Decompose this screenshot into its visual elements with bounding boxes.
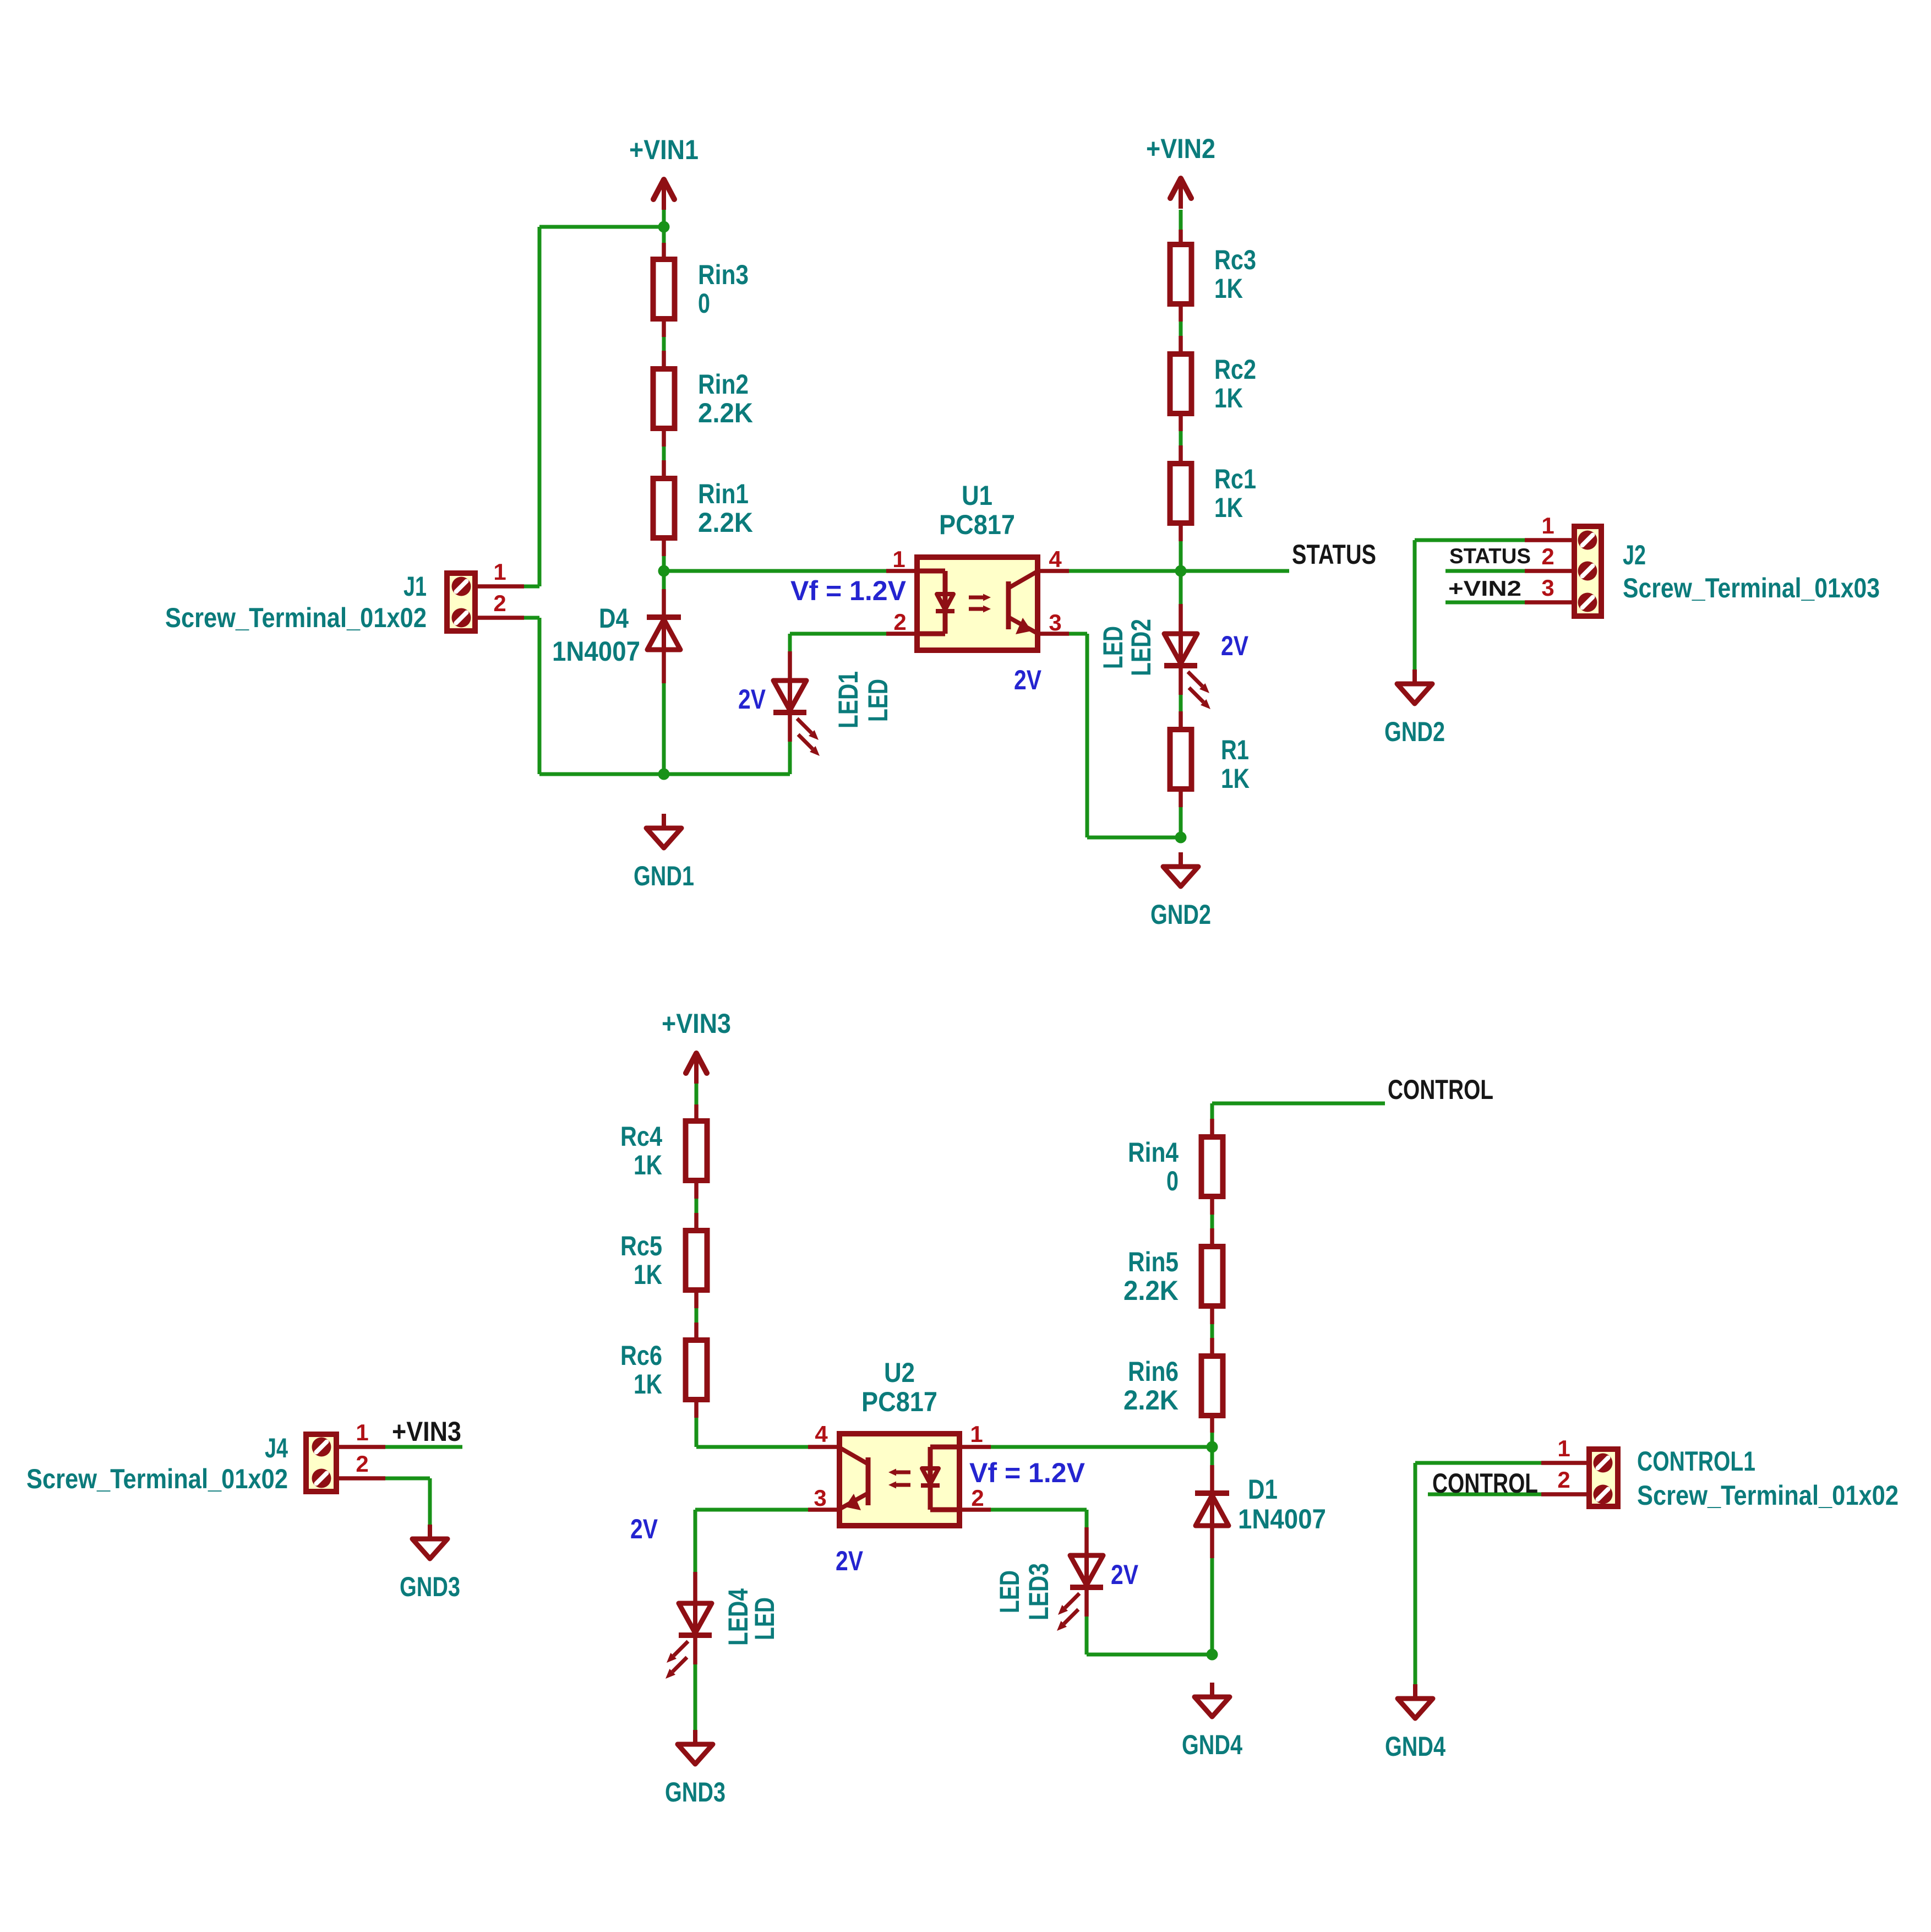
svg-text:+VIN2: +VIN2 — [1146, 133, 1215, 164]
svg-text:1: 1 — [493, 559, 506, 585]
svg-text:Rc3: Rc3 — [1214, 244, 1256, 275]
svg-text:Rc6: Rc6 — [620, 1340, 662, 1371]
svg-text:Rin1: Rin1 — [698, 478, 749, 509]
svg-text:2: 2 — [356, 1451, 368, 1477]
svg-text:Rin4: Rin4 — [1128, 1137, 1179, 1168]
svg-text:2V: 2V — [1221, 630, 1249, 661]
svg-text:1K: 1K — [1221, 763, 1250, 794]
svg-text:2V: 2V — [1014, 665, 1042, 695]
svg-text:2V: 2V — [630, 1514, 658, 1544]
svg-text:Rc1: Rc1 — [1214, 464, 1256, 494]
svg-text:0: 0 — [1166, 1166, 1179, 1196]
svg-text:LED2: LED2 — [1126, 619, 1157, 676]
svg-text:GND4: GND4 — [1385, 1731, 1445, 1762]
svg-text:GND3: GND3 — [665, 1777, 726, 1808]
svg-text:LED1: LED1 — [833, 671, 864, 728]
svg-text:Rin2: Rin2 — [698, 369, 749, 400]
svg-text:2V: 2V — [1111, 1559, 1139, 1590]
svg-text:1K: 1K — [634, 1259, 662, 1290]
svg-text:2: 2 — [971, 1485, 984, 1511]
svg-text:2V: 2V — [836, 1545, 864, 1576]
svg-text:Screw_Terminal_01x03: Screw_Terminal_01x03 — [1623, 573, 1880, 603]
svg-text:1N4007: 1N4007 — [552, 636, 640, 667]
svg-text:CONTROL: CONTROL — [1388, 1074, 1493, 1105]
svg-text:J1: J1 — [403, 571, 427, 602]
svg-text:LED: LED — [994, 1570, 1025, 1613]
svg-text:2.2K: 2.2K — [698, 507, 753, 538]
svg-text:1: 1 — [892, 546, 905, 572]
svg-text:PC817: PC817 — [939, 509, 1015, 540]
svg-text:1K: 1K — [634, 1369, 662, 1400]
svg-text:1: 1 — [356, 1419, 368, 1445]
svg-text:1K: 1K — [1214, 273, 1243, 304]
svg-text:1N4007: 1N4007 — [1238, 1504, 1326, 1534]
svg-text:3: 3 — [814, 1485, 826, 1511]
svg-text:1: 1 — [1557, 1435, 1570, 1461]
svg-text:PC817: PC817 — [861, 1386, 937, 1417]
svg-text:LED: LED — [863, 679, 893, 722]
svg-text:4: 4 — [1049, 546, 1062, 572]
svg-text:Rc4: Rc4 — [620, 1121, 662, 1152]
svg-text:+VIN3: +VIN3 — [392, 1416, 461, 1447]
svg-text:LED: LED — [749, 1597, 780, 1640]
svg-text:+VIN2: +VIN2 — [1448, 577, 1521, 601]
svg-text:GND1: GND1 — [634, 861, 694, 891]
svg-text:2: 2 — [1557, 1467, 1570, 1493]
svg-text:Vf = 1.2V: Vf = 1.2V — [790, 575, 907, 606]
svg-text:GND3: GND3 — [400, 1571, 460, 1602]
svg-text:Screw_Terminal_01x02: Screw_Terminal_01x02 — [165, 602, 427, 633]
svg-text:D1: D1 — [1248, 1474, 1278, 1505]
svg-text:Rin3: Rin3 — [698, 259, 749, 290]
svg-text:Rin5: Rin5 — [1128, 1247, 1179, 1277]
svg-text:D4: D4 — [599, 603, 629, 634]
svg-text:Screw_Terminal_01x02: Screw_Terminal_01x02 — [1637, 1480, 1899, 1511]
svg-text:R1: R1 — [1221, 734, 1249, 765]
svg-text:1: 1 — [1541, 513, 1554, 538]
svg-text:3: 3 — [1049, 609, 1061, 635]
svg-text:Screw_Terminal_01x02: Screw_Terminal_01x02 — [26, 1463, 288, 1494]
svg-text:GND2: GND2 — [1150, 899, 1211, 930]
svg-text:2V: 2V — [738, 684, 766, 715]
svg-text:1K: 1K — [1214, 383, 1243, 413]
svg-text:CONTROL: CONTROL — [1432, 1468, 1538, 1499]
svg-text:1: 1 — [970, 1421, 983, 1447]
svg-text:Rc2: Rc2 — [1214, 354, 1256, 385]
svg-text:LED: LED — [1098, 626, 1128, 669]
svg-text:3: 3 — [1541, 575, 1554, 601]
svg-text:U2: U2 — [884, 1357, 915, 1388]
svg-text:GND2: GND2 — [1384, 716, 1445, 747]
svg-text:2: 2 — [1541, 543, 1554, 569]
svg-text:J2: J2 — [1623, 540, 1646, 570]
svg-text:LED3: LED3 — [1023, 1563, 1054, 1620]
svg-text:CONTROL1: CONTROL1 — [1637, 1446, 1755, 1477]
svg-text:2.2K: 2.2K — [1123, 1385, 1179, 1416]
svg-text:J4: J4 — [265, 1433, 288, 1463]
svg-text:U1: U1 — [962, 480, 992, 511]
svg-text:GND4: GND4 — [1182, 1729, 1242, 1760]
svg-text:1K: 1K — [634, 1150, 662, 1180]
svg-text:4: 4 — [815, 1421, 828, 1447]
svg-text:2.2K: 2.2K — [1123, 1275, 1179, 1306]
svg-text:Rin6: Rin6 — [1128, 1356, 1179, 1387]
svg-text:Vf = 1.2V: Vf = 1.2V — [969, 1457, 1085, 1488]
svg-text:+VIN3: +VIN3 — [662, 1008, 731, 1039]
svg-text:1K: 1K — [1214, 492, 1243, 523]
svg-text:STATUS: STATUS — [1292, 539, 1376, 570]
svg-text:2: 2 — [893, 609, 906, 635]
svg-text:STATUS: STATUS — [1449, 545, 1531, 568]
svg-text:+VIN1: +VIN1 — [629, 134, 699, 165]
svg-text:Rc5: Rc5 — [620, 1231, 662, 1261]
svg-text:2.2K: 2.2K — [698, 398, 753, 428]
svg-text:2: 2 — [493, 590, 506, 616]
svg-text:0: 0 — [698, 288, 710, 319]
